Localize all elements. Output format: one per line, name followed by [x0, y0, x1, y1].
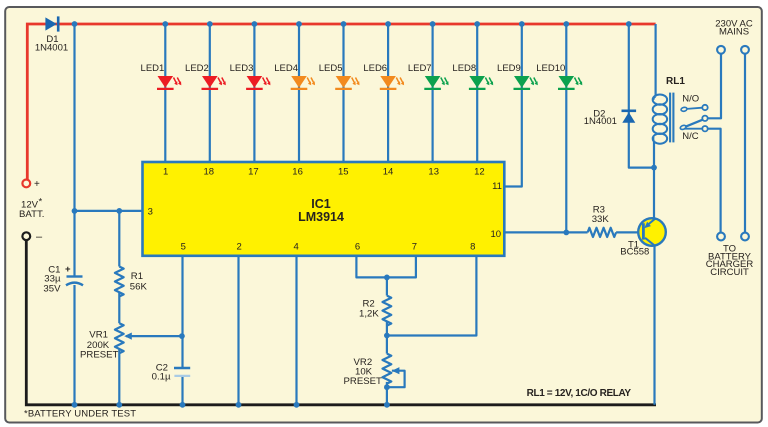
svg-text:LED1: LED1 [141, 63, 165, 74]
battery charger terminals [706, 233, 754, 278]
collector line [645, 238, 655, 246]
svg-text:+: + [65, 264, 71, 275]
LED8 [452, 63, 493, 89]
svg-text:1,2K: 1,2K [359, 309, 379, 320]
wire: LED6 column from +12V rail to IC pin 14 [387, 24, 389, 162]
LED10 [536, 63, 582, 89]
svg-text:LED10: LED10 [536, 63, 565, 74]
svg-text:8: 8 [470, 242, 475, 253]
wire: LED5 column from +12V rail to IC pin 15 [342, 24, 344, 162]
resistor R3 33K [588, 205, 616, 237]
svg-text:56K: 56K [130, 281, 148, 292]
wire: R1/VR1 branch [118, 211, 120, 405]
wire: battery negative lead and bottom ground rail [26, 240, 656, 405]
wire: node to IC pin 3 [75, 210, 143, 212]
svg-text:16: 16 [292, 167, 303, 178]
svg-text:LED5: LED5 [319, 63, 343, 74]
svg-text:MAINS: MAINS [719, 26, 749, 37]
svg-text:CIRCUIT: CIRCUIT [710, 267, 749, 278]
svg-text:RL1 = 12V, 1C/O RELAY: RL1 = 12V, 1C/O RELAY [527, 388, 632, 399]
svg-text:18: 18 [204, 167, 215, 178]
svg-text:5: 5 [181, 242, 186, 253]
svg-text:LED9: LED9 [497, 63, 521, 74]
svg-text:1N4001: 1N4001 [584, 116, 617, 127]
svg-text:35V: 35V [43, 283, 61, 294]
wire: VR2 wiper strap to bottom end [387, 371, 405, 388]
relay RL1 coil [653, 76, 686, 144]
relay core bars [669, 93, 671, 143]
wire: LED1 column from +12V rail to IC pin 1 [164, 24, 166, 162]
emitter with PNP arrow [648, 219, 655, 225]
diode D2 1N4001 [584, 108, 636, 127]
svg-text:15: 15 [338, 167, 349, 178]
svg-text:N/O: N/O [682, 94, 699, 105]
svg-text:N/C: N/C [682, 131, 699, 142]
svg-text:*: * [39, 197, 43, 208]
svg-text:12: 12 [474, 167, 485, 178]
svg-text:LED4: LED4 [274, 63, 298, 74]
battery negative terminal [22, 231, 43, 243]
svg-text:4: 4 [293, 242, 298, 253]
wire: LED8 column from +12V rail to IC pin 12 [476, 24, 478, 162]
resistor R1 56K [115, 267, 148, 297]
LED3 [230, 63, 271, 89]
svg-text:PRESET: PRESET [80, 349, 119, 360]
svg-text:6: 6 [355, 242, 360, 253]
wire: C1 branch down to ground rail [73, 211, 75, 405]
svg-text:0.1µ: 0.1µ [152, 372, 171, 383]
junction nodes on +12V rail [72, 21, 632, 27]
svg-text:1N4001: 1N4001 [35, 43, 68, 54]
wire: mains left lead to relay pole [708, 54, 722, 119]
svg-text:LM3914: LM3914 [298, 210, 344, 224]
svg-text:3: 3 [148, 207, 153, 218]
svg-text:1: 1 [163, 167, 168, 178]
wire: junction to R2 [386, 277, 388, 295]
junction nodes on ground rail [72, 402, 390, 408]
wire: IC pin 4 to ground rail [295, 256, 297, 405]
IC1 LM3914 [143, 162, 505, 256]
wire: IC pins 6 and 7 joined [356, 256, 416, 278]
wire: LED2 column from +12V rail to IC pin 18 [209, 24, 211, 162]
wire: IC pin 10 run to R3 and transistor base [504, 231, 642, 233]
LED5 [319, 63, 360, 89]
svg-text:*BATTERY UNDER TEST: *BATTERY UNDER TEST [24, 408, 136, 419]
preset VR2 10K [344, 354, 400, 387]
svg-text:33K: 33K [592, 214, 610, 225]
svg-text:2: 2 [237, 242, 242, 253]
wire: relay coil bottom to transistor collector node [653, 141, 655, 219]
capacitor C2 0.1u [152, 362, 191, 382]
svg-text:7: 7 [412, 242, 417, 253]
svg-text:LED7: LED7 [408, 63, 432, 74]
svg-text:LED2: LED2 [185, 63, 209, 74]
relay pole contact [680, 116, 708, 131]
svg-text:LED3: LED3 [230, 63, 254, 74]
svg-text:11: 11 [492, 181, 502, 192]
other junction nodes [72, 165, 657, 390]
wire: LED3 column from +12V rail to IC pin 17 [253, 24, 255, 162]
LED7 [408, 63, 449, 89]
svg-text:BATT.: BATT. [19, 209, 44, 220]
svg-text:LED8: LED8 [452, 63, 476, 74]
svg-text:LED6: LED6 [363, 63, 387, 74]
wire: VR2 bottom to ground rail [386, 382, 388, 405]
resistor R2 1.2K [359, 296, 391, 326]
diode D1 1N4001 [35, 16, 68, 53]
transistor T1 BC558 [620, 218, 666, 257]
svg-text:PRESET: PRESET [344, 376, 383, 387]
wire: relay coil feed from red rail [654, 24, 656, 97]
relay armature [685, 120, 702, 127]
svg-text:+: + [34, 179, 40, 190]
wire: IC pin 5 / C2 column down to ground rail [181, 256, 183, 405]
svg-text:RL1: RL1 [666, 76, 685, 87]
LED6 [363, 63, 404, 89]
svg-text:10: 10 [491, 229, 502, 240]
230V AC mains terminals [715, 18, 753, 53]
svg-text:17: 17 [248, 167, 259, 178]
LED1 [141, 63, 182, 89]
LED2 [185, 63, 226, 89]
LED9 [497, 63, 538, 89]
capacitor C1 33u 35V [43, 264, 83, 294]
LED4 [274, 63, 315, 89]
svg-text:BC558: BC558 [620, 246, 649, 257]
svg-text:14: 14 [383, 167, 394, 178]
wire: LED10 column from rail to pin 10 node [565, 24, 567, 232]
wire: LED7 column from +12V rail to IC pin 13 [432, 24, 434, 162]
relay N/C contact [682, 126, 707, 142]
wire: D1 cathode junction down to pin 3 node [73, 24, 75, 211]
wire: IC pin 2 to ground rail [237, 256, 239, 405]
wire: relay N/C contact to battery charger lead [708, 129, 721, 233]
wire: mains right lead to battery charger terminal [744, 54, 746, 233]
wire: LED4 column from +12V rail to IC pin 16 [298, 24, 300, 162]
battery positive terminal 12V [19, 179, 44, 220]
svg-text:13: 13 [428, 167, 439, 178]
preset VR1 200K [80, 323, 132, 360]
wire: +12V red rail from battery + terminal along top [27, 24, 655, 180]
relay N/O contact [681, 94, 708, 112]
wire: transistor emitter down to ground rail [653, 245, 655, 404]
wire: R2 bottom to VR2 top with branch to pin 8 [387, 256, 477, 354]
wire: VR1 wiper to pin5 column [126, 335, 182, 337]
wire: D2 column from rail down and across to relay node [629, 24, 654, 168]
wire: LED9 column from rail to IC pin 11 [504, 24, 522, 187]
svg-text:–: – [36, 231, 43, 243]
